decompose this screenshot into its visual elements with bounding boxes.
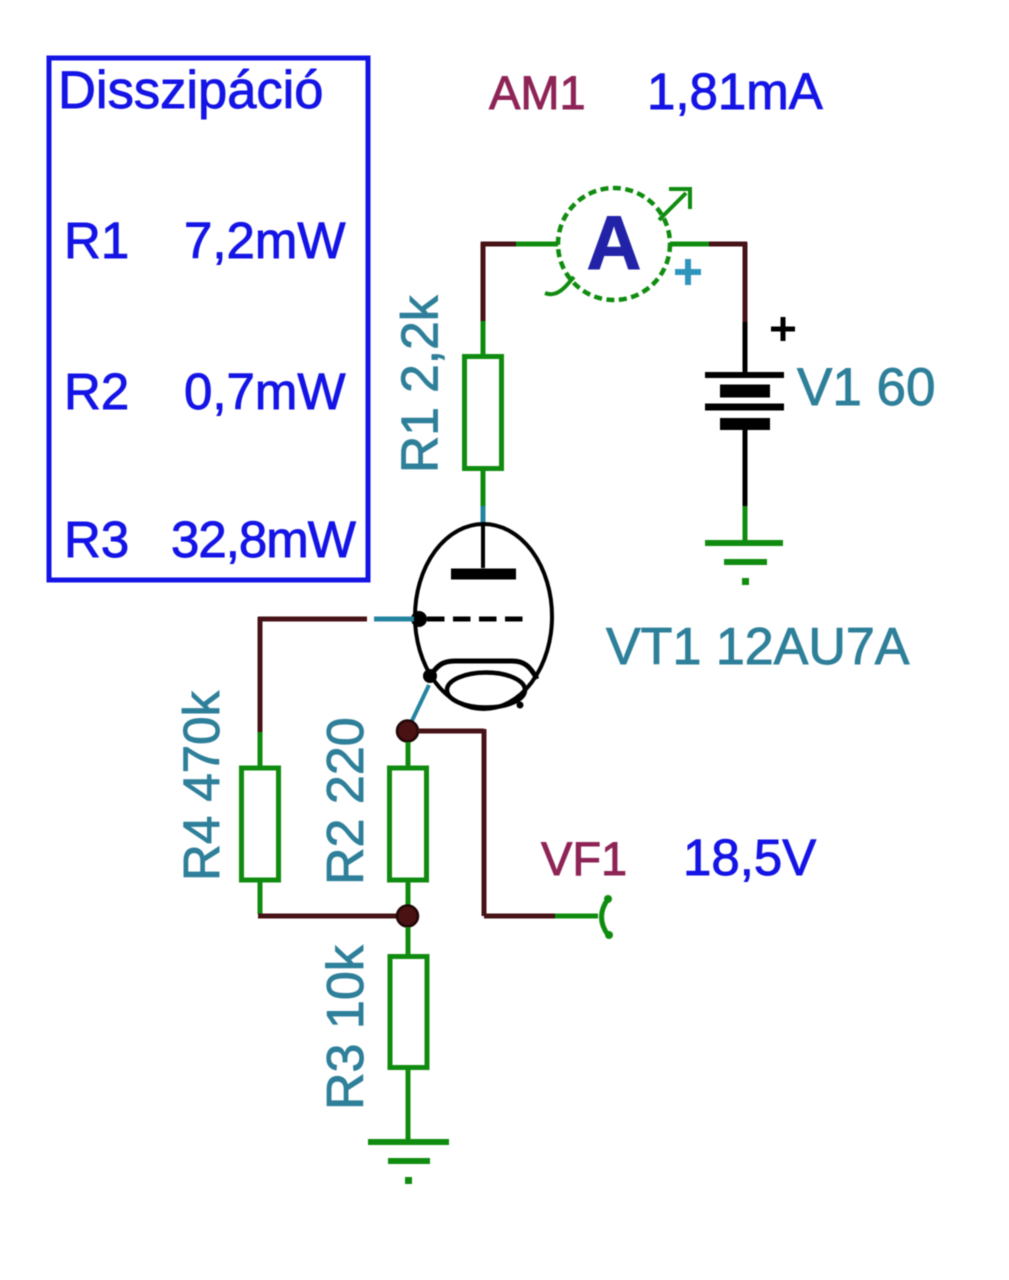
wire R2 bottom to junction2 xyxy=(406,879,411,906)
svg-text:0,7mW: 0,7mW xyxy=(184,363,346,420)
wire R3 bottom to ground xyxy=(406,1066,411,1142)
label R3 10k xyxy=(317,944,375,1110)
probe VF1 tip xyxy=(602,895,614,939)
label VF1 xyxy=(541,832,627,885)
svg-text:7,2mW: 7,2mW xyxy=(184,212,346,269)
value 1,81mA xyxy=(647,63,823,120)
svg-text:A: A xyxy=(587,201,642,286)
svg-text:R2 220: R2 220 xyxy=(317,717,375,885)
pin wire cathode xyxy=(409,685,429,727)
wire junction2 to R3 top xyxy=(406,927,411,958)
wire R1 bottom to tube plate xyxy=(481,467,486,525)
table row R3 32,8mW xyxy=(64,511,356,568)
label AM1 xyxy=(489,66,586,119)
svg-text:32,8mW: 32,8mW xyxy=(171,511,356,568)
svg-text:R1: R1 xyxy=(64,212,129,269)
node junction2 xyxy=(397,906,418,927)
resistor R1 xyxy=(465,357,502,469)
wire ammeter left to R1 top xyxy=(481,242,558,358)
svg-text:R2: R2 xyxy=(64,363,129,420)
svg-text:VF1: VF1 xyxy=(541,832,627,885)
table row R2 0,7mW xyxy=(64,363,346,420)
triode VT1 anode xyxy=(451,525,516,574)
svg-text:R3: R3 xyxy=(64,511,129,568)
table title Disszipáció xyxy=(58,61,324,120)
triode VT1 grid xyxy=(411,611,530,627)
resistor R2 xyxy=(390,768,427,880)
label R2 220 xyxy=(317,717,375,885)
ammeter AM1 xyxy=(545,187,701,300)
wire R4 bottom to junction xyxy=(258,879,396,916)
label R1 2,2k xyxy=(391,295,449,473)
dissipation table box xyxy=(49,58,368,580)
svg-text:1,81mA: 1,81mA xyxy=(647,63,823,120)
table row R1 7,2mW xyxy=(64,212,346,269)
label V1 60 xyxy=(797,358,936,417)
battery V1 xyxy=(705,317,795,424)
wire ammeter right to battery top xyxy=(670,242,747,373)
svg-text:V1 60: V1 60 xyxy=(797,358,936,417)
triode VT1 cathode xyxy=(423,661,537,709)
svg-text:VT1 12AU7A: VT1 12AU7A xyxy=(606,618,910,676)
value 18,5V xyxy=(683,829,816,886)
node junction cathode xyxy=(397,721,418,742)
svg-text:18,5V: 18,5V xyxy=(683,829,816,886)
resistor R4 xyxy=(242,768,279,880)
svg-text:R1 2,2k: R1 2,2k xyxy=(391,295,449,473)
svg-text:Disszipáció: Disszipáció xyxy=(58,61,324,120)
svg-text:R3 10k: R3 10k xyxy=(317,944,375,1110)
svg-text:R4 470k: R4 470k xyxy=(173,691,230,881)
label VT1 12AU7A xyxy=(606,618,910,676)
triode VT1 envelope xyxy=(415,524,552,709)
wire grid to R4 top xyxy=(258,617,414,769)
wire junction to R2 top xyxy=(406,742,411,769)
label R4 470k xyxy=(173,691,230,881)
wire battery bottom to ground xyxy=(743,430,748,543)
svg-text:AM1: AM1 xyxy=(489,66,586,119)
ground battery xyxy=(705,543,783,585)
resistor R3 xyxy=(390,957,427,1068)
ground bottom xyxy=(368,1142,449,1184)
wire junction to VF1 probe xyxy=(418,729,598,916)
